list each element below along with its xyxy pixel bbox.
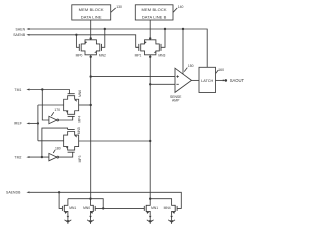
- svg-text:MEM BLOCK: MEM BLOCK: [79, 7, 104, 12]
- wire TG MN6 output to data line: [79, 104, 91, 106]
- transistor MN1 (left pulldown): [62, 199, 76, 216]
- node plus tap on data line: [90, 75, 92, 77]
- wire TM2 up to MN5 gate: [42, 128, 68, 157]
- node minus tap on data line B: [149, 83, 151, 85]
- svg-text:MN4: MN4: [164, 206, 171, 210]
- svg-text:MP3: MP3: [78, 155, 82, 162]
- SAENB input label: [13, 33, 29, 37]
- node data line B top of pass gate: [149, 37, 151, 39]
- svg-text:SAOUT: SAOUT: [230, 78, 245, 83]
- wire minus input from data line B: [150, 83, 175, 85]
- svg-text:130: 130: [116, 5, 122, 9]
- wire data line B down: [149, 55, 151, 199]
- node data line B below pass gate: [149, 56, 151, 58]
- svg-text:150: 150: [188, 64, 194, 68]
- svg-text:MN5: MN5: [77, 127, 81, 134]
- SAEN input label: [16, 27, 30, 31]
- svg-text:MN3: MN3: [158, 53, 165, 57]
- transistor MN0 (right pulldown): [83, 199, 95, 216]
- svg-text:170: 170: [54, 108, 60, 112]
- IREF input label: [14, 122, 30, 126]
- transmission gate MP0/MN2: [76, 29, 106, 57]
- svg-text:MP0: MP0: [76, 53, 83, 57]
- wire cross-coupled gate line: [95, 207, 144, 209]
- label 140 leader: [173, 5, 183, 13]
- label 170 leader: [51, 108, 60, 116]
- SAENDB input label: [6, 191, 30, 195]
- svg-text:IREF: IREF: [14, 122, 22, 126]
- svg-text:SAENB: SAENB: [13, 33, 26, 37]
- node TG MN6 output on data line: [90, 104, 92, 106]
- wire SAENB rail: [30, 35, 139, 48]
- transmission gate MN5/MP3: [64, 127, 83, 162]
- node data line below pass gate: [90, 56, 92, 58]
- wire drain bridge right pair: [150, 199, 175, 206]
- node SAENB-MP0 gate: [75, 34, 77, 36]
- svg-text:MN1: MN1: [151, 206, 158, 210]
- wire drain bridge to data line: [68, 199, 103, 209]
- node IREF split: [37, 122, 39, 124]
- wire TM1 line: [30, 90, 70, 94]
- wire data line from box 130: [90, 20, 92, 40]
- node bridge on data line: [89, 198, 91, 200]
- svg-text:MP1: MP1: [135, 53, 142, 57]
- svg-text:180: 180: [55, 146, 61, 150]
- wire sense amp enable from SAEN: [182, 29, 184, 74]
- svg-text:160: 160: [218, 68, 224, 72]
- node SAEN-MN3 gate: [164, 28, 166, 30]
- ground: [87, 215, 94, 224]
- op-amp sense amp 150: [170, 68, 192, 103]
- TM1 input label: [14, 88, 29, 92]
- svg-text:AMP: AMP: [172, 99, 180, 103]
- svg-text:MN1: MN1: [69, 206, 76, 210]
- inverter 170: [49, 116, 73, 123]
- svg-text:MN6: MN6: [78, 90, 82, 97]
- wire SAEN rail: [30, 29, 208, 67]
- node TM2 gate tap: [41, 156, 43, 158]
- svg-text:MP4: MP4: [77, 116, 81, 123]
- wire SAENDB riser to MN1 gate: [59, 192, 62, 208]
- wire plus input from data line: [91, 76, 175, 78]
- latch box 160: [199, 67, 216, 92]
- svg-text:TM1: TM1: [14, 88, 21, 92]
- svg-text:140: 140: [178, 5, 184, 9]
- node data line top of pass gate: [90, 37, 92, 39]
- label 130 leader: [111, 5, 122, 13]
- wire SAOUT output: [216, 78, 245, 83]
- svg-text:MN2: MN2: [99, 53, 106, 57]
- label 180 leader: [53, 146, 61, 153]
- transistor MN1b (left pulldown of right pair): [144, 199, 158, 216]
- wire data line B from box 140: [149, 20, 151, 40]
- wire TG MN5 output to data line B: [79, 140, 151, 142]
- node SAEN-MN2 gate: [104, 28, 106, 30]
- svg-text:TM2: TM2: [14, 155, 21, 159]
- label 150 leader: [184, 64, 193, 71]
- mem block box 130: [72, 5, 111, 20]
- svg-text:LATCH: LATCH: [201, 79, 213, 83]
- node bridge to gate line: [102, 207, 104, 209]
- ground: [65, 215, 72, 224]
- wire IREF to TG MN6 input: [38, 104, 64, 106]
- transmission gate MP1/MN3: [135, 29, 166, 57]
- wire data line down: [90, 55, 92, 199]
- TM2 input label: [14, 155, 29, 159]
- wire TM1 down to inverter 170: [42, 90, 49, 121]
- ground: [168, 215, 175, 224]
- node SAEN-sense amp enable: [182, 28, 184, 30]
- transistor MN4 (right pulldown of right pair): [164, 205, 178, 216]
- wire SAENDB rail: [30, 192, 182, 208]
- mem block box 140: [135, 5, 173, 20]
- ground: [147, 215, 154, 224]
- svg-text:MEM BLOCK: MEM BLOCK: [142, 7, 167, 12]
- node TG MN5 output on data line B: [149, 140, 151, 142]
- wire sense amp output: [192, 79, 200, 81]
- wire TM2 line to inverter 180: [30, 156, 49, 158]
- inverter 180: [49, 152, 73, 161]
- node TM1 inverter tap: [41, 88, 43, 90]
- wire IREF line: [30, 122, 38, 124]
- svg-text:MN0: MN0: [83, 206, 90, 210]
- wire IREF to TG MN5 input: [38, 140, 64, 142]
- svg-text:DATA LINE B: DATA LINE B: [142, 15, 167, 20]
- node SAENDB-MN1 gate: [58, 191, 60, 193]
- svg-text:DATA LINE: DATA LINE: [81, 15, 102, 20]
- label 160 leader: [216, 68, 224, 73]
- node bridge on data line B: [149, 198, 151, 200]
- transmission gate MN6/MP4: [64, 90, 82, 123]
- svg-text:SAENDB: SAENDB: [6, 191, 21, 195]
- svg-text:SAEN: SAEN: [16, 27, 26, 31]
- wire IREF riser to both gates: [37, 105, 39, 141]
